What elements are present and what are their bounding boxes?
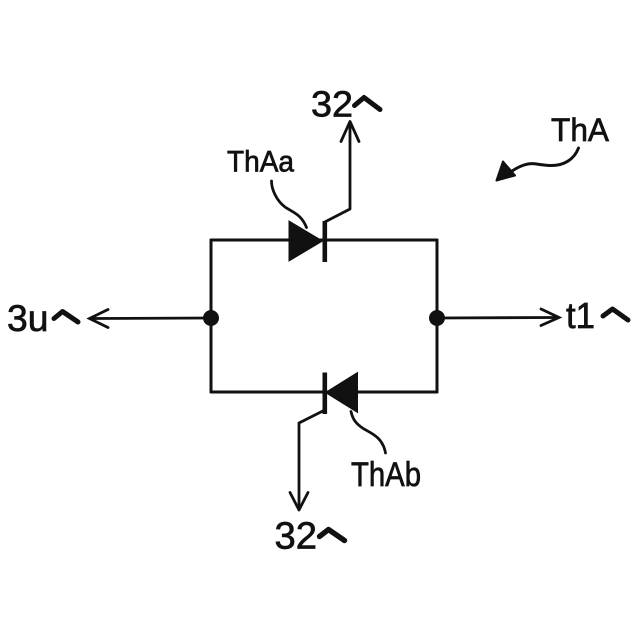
leader line ThAa [272, 181, 307, 228]
kana-he after bottom 32 [320, 530, 345, 541]
wire right [436, 240, 439, 392]
thyristor ThAb anode triangle [326, 373, 358, 413]
kana-he after t1 [603, 309, 628, 320]
node right junction [429, 310, 445, 326]
kana-he after top 32 [355, 98, 381, 110]
svg-text:3u: 3u [7, 297, 49, 339]
node left junction [203, 310, 219, 326]
arrowhead up to 32 [341, 122, 359, 142]
svg-text:t1: t1 [566, 295, 595, 336]
thyristor ThAa cathode bar [322, 221, 327, 262]
svg-text:ThA: ThA [551, 112, 609, 148]
wire arrow to t1 [437, 309, 559, 326]
arrowhead down to 32 [290, 493, 308, 511]
arrowhead of ThA [497, 162, 516, 181]
leader line ThAb [351, 412, 386, 454]
svg-text:32: 32 [275, 515, 318, 557]
wire left [210, 240, 213, 392]
svg-text:32: 32 [311, 83, 353, 124]
wire arrow to 3u [90, 310, 212, 328]
wire bottom [211, 391, 437, 394]
thyristor ThAa anode triangle [289, 221, 323, 261]
arrow from ThA [509, 148, 579, 174]
thyristor ThAb gate wire to 32 [299, 410, 325, 508]
kana-he after 3u [54, 312, 78, 323]
thyristor ThAa gate wire to 32 [325, 124, 350, 222]
svg-text:ThAa: ThAa [227, 146, 295, 179]
svg-text:ThAb: ThAb [351, 456, 421, 494]
wire top (3u-t1 loop top side) [211, 239, 437, 242]
thyristor ThAb cathode bar [322, 373, 327, 415]
